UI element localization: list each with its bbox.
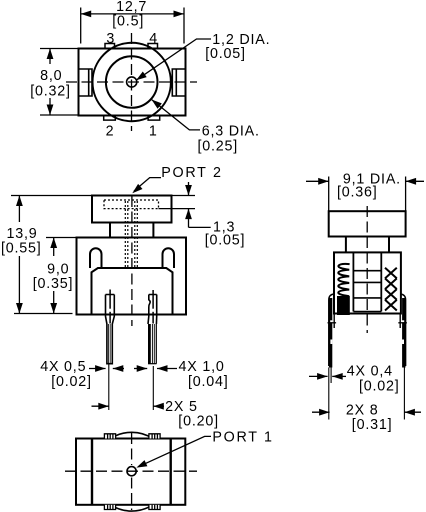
svg-text:4X 0,4: 4X 0,4 bbox=[347, 364, 393, 380]
pin 4 tab (top-right) bbox=[148, 44, 158, 49]
svg-text:6,3 DIA.: 6,3 DIA. bbox=[202, 124, 260, 140]
neck below cap bbox=[109, 223, 111, 238]
X pattern (right column) bbox=[385, 268, 397, 311]
svg-text:[0.04]: [0.04] bbox=[188, 374, 229, 390]
port 1 hole bbox=[127, 467, 136, 476]
dimension 1,3 extension lines bbox=[172, 195, 196, 197]
dimension 9,1 DIA. arrows bbox=[306, 180, 329, 182]
bottom view vertical centerline bbox=[131, 433, 133, 465]
side neck bbox=[345, 237, 347, 253]
bottom-right pin end bbox=[149, 505, 160, 510]
side view centerline bbox=[366, 206, 368, 333]
leader 1,2 DIA. bbox=[137, 39, 211, 80]
svg-text:[0.35]: [0.35] bbox=[33, 276, 74, 292]
spring symbol (left column) bbox=[338, 264, 349, 296]
outer circle (can) bbox=[93, 43, 171, 121]
middle column dividers bbox=[353, 270, 381, 272]
svg-text:[0.31]: [0.31] bbox=[352, 417, 393, 433]
right flange line bbox=[169, 439, 171, 505]
dimension 9,0 line with arrows bbox=[53, 238, 55, 257]
right leg bbox=[400, 294, 405, 366]
dimension 1,3 arrows bbox=[188, 182, 190, 196]
svg-text:[0.55]: [0.55] bbox=[1, 241, 42, 257]
body outline bbox=[77, 238, 187, 315]
dimension 13,9 line with arrows bbox=[18, 196, 20, 223]
vertical centerline bbox=[131, 33, 133, 131]
slug with beveled corners bbox=[92, 268, 173, 314]
dimension 4X 0,4 arrows bbox=[309, 375, 328, 377]
top-left pin end bbox=[104, 434, 115, 439]
svg-text:4: 4 bbox=[149, 31, 157, 47]
right side tab bbox=[172, 69, 185, 96]
top-right pin end bbox=[149, 434, 160, 439]
svg-text:[0.32]: [0.32] bbox=[30, 84, 71, 100]
bottom view outline bbox=[76, 439, 185, 505]
dimension 2X 5 arrows bbox=[92, 405, 109, 407]
dimension 4X 1,0 arrows bbox=[134, 368, 147, 370]
dimension 8,0 line with arrows bbox=[49, 49, 51, 65]
side body inner columns bbox=[352, 252, 354, 311]
dimension 12,7 extension lines bbox=[80, 8, 82, 44]
svg-text:PORT 1: PORT 1 bbox=[212, 430, 273, 446]
leg extension lines bbox=[328, 368, 330, 420]
dimension 2X 5 extension lines bbox=[108, 364, 110, 410]
pin 1 tab (bottom-right) bbox=[148, 116, 160, 121]
left pin (front view) bbox=[109, 290, 111, 309]
side cap outline bbox=[329, 211, 406, 236]
svg-text:[0.5]: [0.5] bbox=[112, 14, 144, 30]
dimension 9,1 DIA. extension lines bbox=[328, 177, 330, 212]
svg-text:4X 1,0: 4X 1,0 bbox=[179, 359, 225, 375]
hidden lines down from slot bbox=[124, 201, 126, 268]
svg-text:2: 2 bbox=[106, 123, 114, 139]
dimension 8,0 extension lines bbox=[40, 48, 79, 50]
hidden slot in cap (dotted) bbox=[104, 200, 159, 209]
svg-text:PORT 2: PORT 2 bbox=[161, 165, 222, 181]
left leg bbox=[329, 294, 334, 366]
svg-text:[0.05]: [0.05] bbox=[205, 233, 246, 249]
bottom can arc bbox=[111, 505, 153, 511]
side body outline bbox=[334, 252, 401, 313]
svg-text:[0.20]: [0.20] bbox=[178, 414, 219, 430]
left side tab bbox=[79, 69, 93, 96]
top can arc bbox=[111, 432, 153, 438]
dimension 9,0 extension line bbox=[46, 237, 77, 239]
pin 3 tab (top-left) bbox=[105, 44, 115, 49]
svg-text:[0.36]: [0.36] bbox=[337, 185, 378, 201]
dimension 13,9 extension lines bbox=[11, 195, 92, 197]
svg-text:8,0: 8,0 bbox=[40, 68, 62, 84]
svg-text:[0.02]: [0.02] bbox=[51, 374, 92, 390]
inner circle 6,3 dia bbox=[106, 56, 158, 108]
svg-text:4X 0,5: 4X 0,5 bbox=[40, 359, 86, 375]
front view centerline bbox=[131, 196, 133, 326]
svg-text:[0.05]: [0.05] bbox=[205, 46, 246, 62]
PORT 1 leader bbox=[139, 436, 212, 466]
pin 2 tab (bottom-left) bbox=[104, 116, 116, 121]
bottom-left pin end bbox=[104, 505, 115, 510]
svg-text:[0.02]: [0.02] bbox=[359, 379, 400, 395]
horizontal centerline bbox=[66, 81, 197, 83]
svg-text:3: 3 bbox=[106, 31, 114, 47]
dimension 2X 8 arrows bbox=[312, 411, 330, 413]
center hole 1,2 dia bbox=[127, 77, 137, 87]
top view package outline bbox=[79, 49, 186, 116]
right pin pair (front view) bbox=[152, 290, 154, 309]
left flange line bbox=[91, 439, 93, 505]
PORT 2 leader bbox=[134, 178, 161, 191]
right post bbox=[163, 248, 175, 268]
cap outline bbox=[92, 196, 172, 223]
dimension 12,7 line with arrows bbox=[81, 13, 184, 15]
bottom view horizontal centerline bbox=[65, 470, 197, 472]
leader 6,3 DIA. bbox=[152, 100, 200, 130]
left post bbox=[90, 248, 102, 268]
svg-text:[0.25]: [0.25] bbox=[198, 139, 239, 155]
dimension 4X 0,5 arrows bbox=[89, 368, 106, 370]
svg-text:1: 1 bbox=[149, 123, 157, 139]
